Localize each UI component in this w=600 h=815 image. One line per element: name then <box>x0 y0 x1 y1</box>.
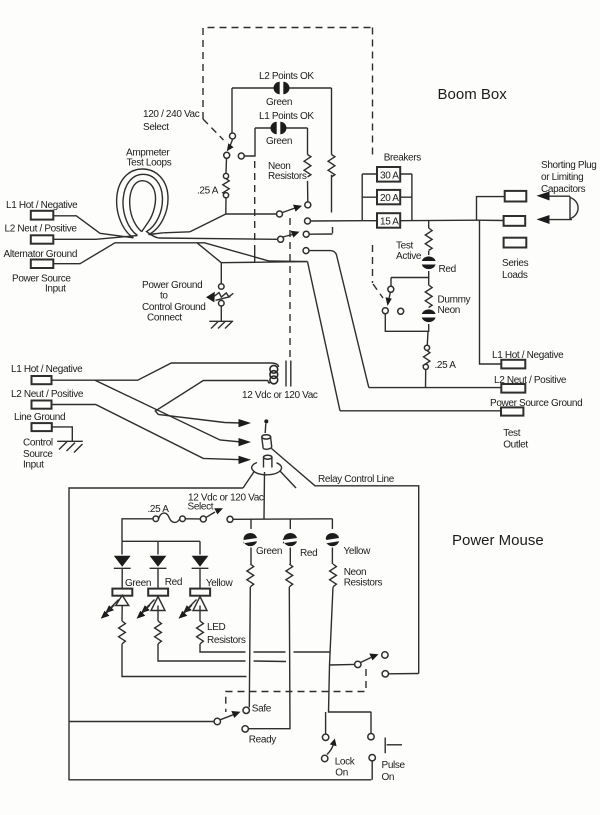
wire long vertical to test outlet L1 <box>480 220 502 364</box>
test outlet terminal L1 <box>501 360 525 369</box>
control terminal Line Ground <box>32 423 52 431</box>
svg-text:Yellow: Yellow <box>344 546 372 557</box>
svg-text:12 Vdc or 120 Vac: 12 Vdc or 120 Vac <box>242 390 318 401</box>
switch select: 120V contact <box>238 153 244 159</box>
LED yellow emission arrows <box>179 600 197 619</box>
connect switch opposing arrows <box>206 292 233 303</box>
svg-text:Green: Green <box>266 97 292 108</box>
svg-text:Alternator Ground: Alternator Ground <box>4 249 78 260</box>
neon resistor R1 lead top <box>307 128 309 155</box>
wire LED yellow to resistor <box>199 606 201 622</box>
switch contact4 (to relay line B) <box>303 248 309 254</box>
wire LED green resistor to green branch <box>122 644 247 677</box>
wire coil return with hook to arrow 1 <box>155 381 268 424</box>
wire input L2 to loop <box>53 236 137 240</box>
series load terminal 2 <box>504 216 526 226</box>
svg-text:L2 Neut / Positive: L2 Neut / Positive <box>5 224 78 235</box>
breaker 30A stubs <box>362 173 412 175</box>
LED yellow bar <box>190 589 210 596</box>
switch contact3 (to neon resistor R2) <box>303 231 309 237</box>
wire contact2 to breakers <box>311 220 363 222</box>
wire lamp to dummy top rail <box>428 271 430 285</box>
wire line ground to earth <box>52 427 73 441</box>
wire loop exit to arm2 <box>158 238 277 239</box>
isolation barrier bars <box>286 361 291 387</box>
wire L1 branch to arrow 2 <box>95 380 241 442</box>
fuse mouse right terminal <box>180 516 186 522</box>
switch arm1 arrow to contact1 <box>283 205 303 213</box>
relay current loop coil <box>267 363 279 384</box>
svg-text:Dummy: Dummy <box>438 295 471 306</box>
LED green bar <box>112 589 132 596</box>
breaker 20A box <box>377 190 400 204</box>
wire LED red to resistor <box>157 606 159 622</box>
wire yellow lamp drop <box>331 519 333 529</box>
ground symbol (power ground) <box>209 321 233 328</box>
switch relay-enable arm arrow <box>361 654 379 663</box>
LED red emission arrows <box>137 600 155 619</box>
breakers left rail <box>361 174 363 221</box>
wire 15A through-line <box>362 219 476 222</box>
svg-text:Source: Source <box>23 449 53 460</box>
dummy resistor lead to lamp <box>428 307 430 309</box>
svg-text:Select: Select <box>143 122 169 133</box>
input terminal L1 <box>31 211 54 220</box>
wire yellow branch down <box>329 587 372 712</box>
fuse .25A boom: bottom terminal <box>223 193 228 198</box>
wire lock/pulse top rail <box>326 712 371 734</box>
test outlet terminal ground <box>501 407 523 415</box>
power mouse box left/top/bottom <box>69 488 371 780</box>
switch safe-ready pivot <box>214 718 220 724</box>
LED yellow triangle <box>193 597 207 611</box>
input terminal Alternator Ground <box>31 260 54 269</box>
wire L2 loop left leg <box>231 88 233 133</box>
test outlet terminal L2 <box>501 384 525 393</box>
svg-text:Neon: Neon <box>344 567 367 578</box>
wire red lamp drop <box>289 519 291 529</box>
control terminal L1 <box>32 376 52 384</box>
ampmeter loop middle turn <box>123 174 162 238</box>
svg-text:15 A: 15 A <box>380 217 399 228</box>
dashed diagonal to dummy-neon switch <box>373 284 383 298</box>
wire dummy-neon top rail <box>391 277 429 279</box>
svg-text:L1 Hot / Negative: L1 Hot / Negative <box>6 200 78 211</box>
wire dummy switch top stub <box>390 278 392 287</box>
svg-text:Resistors: Resistors <box>344 578 383 589</box>
wire L1 loop left leg <box>244 128 255 156</box>
wire L2 loop right leg <box>331 88 333 155</box>
dashed enclosure top/left (120/240 select boundary) <box>203 28 373 120</box>
cable arrow 3 <box>239 456 252 464</box>
fuse .25A boom zigzag <box>223 179 229 195</box>
select mouse contact <box>227 516 233 522</box>
svg-text:Outlet: Outlet <box>503 440 528 451</box>
wire L2 lamp loop top <box>232 87 332 89</box>
wire select common to fuse <box>225 158 228 173</box>
wire L2 line to terminal <box>369 387 502 389</box>
svg-text:Power Ground: Power Ground <box>142 280 202 291</box>
mechanical link dashed (select gang) <box>254 161 256 250</box>
relay jack base <box>252 463 282 475</box>
svg-text:Control: Control <box>23 438 53 449</box>
connect switch bottom contact <box>219 300 225 306</box>
wire red lamp to resistor <box>289 548 291 565</box>
wire link bottom corner <box>254 250 256 263</box>
svg-text:.25 A: .25 A <box>197 186 219 197</box>
wire select contact to lamps bus <box>233 518 332 521</box>
LED resistor red <box>155 621 162 644</box>
wire diode red to LED <box>157 568 159 588</box>
switch lock-on top contact <box>322 734 328 740</box>
svg-text:to: to <box>160 291 168 302</box>
svg-text:Resistors: Resistors <box>268 171 307 182</box>
relay plug upper cylinder <box>262 435 272 450</box>
control terminal L2 <box>32 401 52 409</box>
svg-text:L2 Neut / Positive: L2 Neut / Positive <box>11 389 84 400</box>
svg-text:L2 Points OK: L2 Points OK <box>259 71 314 82</box>
wire fuse to select pivot <box>185 518 200 520</box>
switch select: top contact <box>230 133 236 139</box>
svg-text:Ready: Ready <box>249 735 277 746</box>
wire pulse bottom to bottom rail <box>371 761 373 780</box>
switch contact Ready <box>242 726 248 732</box>
wire LED drop yellow <box>199 541 201 554</box>
wire fuse to junction <box>225 198 227 214</box>
breaker 30A box <box>377 167 400 182</box>
svg-text:Active: Active <box>396 251 422 262</box>
svg-text:Line Ground: Line Ground <box>14 412 65 423</box>
svg-text:Neon: Neon <box>438 305 461 316</box>
wire LED bus <box>122 540 200 542</box>
diode red (filled) <box>150 556 167 569</box>
wire relay control line <box>272 449 419 674</box>
svg-text:or Limiting: or Limiting <box>541 172 583 183</box>
svg-text:Green: Green <box>266 136 292 147</box>
svg-text:Pulse: Pulse <box>382 760 406 771</box>
mechanical link dashed (relay switch to safe/ready) <box>226 669 366 712</box>
select mouse arm arrow <box>206 508 223 517</box>
ampmeter loop inner turn <box>130 181 156 232</box>
diode yellow (filled) <box>192 556 209 569</box>
series load terminal 3 <box>504 238 527 248</box>
svg-text:Loads: Loads <box>502 270 528 281</box>
LED red triangle <box>151 597 165 611</box>
svg-text:Red: Red <box>439 264 456 275</box>
wire LED yellow resistor to yellow branch <box>200 644 330 652</box>
wire control L1 to current loop <box>52 363 268 380</box>
wire green lamp drop <box>250 519 252 529</box>
neon resistor R2 lead bottom (with crossover gap) <box>332 175 333 233</box>
wire plug to select line <box>263 472 266 519</box>
neon lamp mouse Red (vertical) <box>283 533 297 546</box>
diode green (filled) <box>114 556 131 569</box>
switch dummy: top contact <box>388 286 394 292</box>
switch relay-enable pivot <box>355 661 361 667</box>
neon resistor R1 zigzag <box>304 155 311 177</box>
svg-text:Relay Control Line: Relay Control Line <box>318 474 395 485</box>
switch dummy: left contact <box>382 308 388 314</box>
svg-text:Input: Input <box>45 284 66 295</box>
svg-text:Connect: Connect <box>147 313 182 324</box>
switch dummy arm arrow <box>386 293 392 307</box>
relay jack lower cylinder <box>264 455 272 467</box>
wire yellow lamp to resistor <box>331 548 333 565</box>
fuse .25A outlet: bottom terminal <box>423 364 428 369</box>
switch arm2 pivot <box>278 236 284 242</box>
wire dummy bottom rail <box>385 314 428 332</box>
shorting plug D handle <box>570 196 578 219</box>
svg-text:Resistors: Resistors <box>207 635 246 646</box>
wire LED green to resistor <box>121 606 123 622</box>
svg-text:20 A: 20 A <box>380 193 399 204</box>
connect switch top contact <box>219 284 225 290</box>
pulse-on bottom contact <box>369 755 375 761</box>
wire contact4 relay line B start <box>309 251 369 388</box>
switch contact2 (to breakers) <box>305 218 311 224</box>
svg-text:Green: Green <box>256 546 282 557</box>
LED red bar <box>148 589 168 596</box>
input terminal L2 <box>31 235 54 243</box>
ampmeter loop outer turn <box>117 169 168 238</box>
wire main to series load 2 <box>477 219 504 221</box>
wire green branch down to Safe <box>249 587 250 707</box>
dummy neon resistor zigzag <box>425 285 432 307</box>
fuse mouse zigzag <box>159 513 180 522</box>
neon resistor mouse red <box>286 564 293 587</box>
test active resistor lead 2 <box>428 251 430 255</box>
breaker 20A stubs <box>362 196 412 198</box>
svg-text:Power Mouse: Power Mouse <box>452 532 544 549</box>
breakers right rail <box>411 174 413 221</box>
shorting plug arrow 1 <box>537 192 571 201</box>
neon lamp mouse Green (vertical) <box>244 533 257 546</box>
pulse-on top contact <box>368 734 374 740</box>
wire junction to arm1 <box>226 213 276 215</box>
svg-text:Red: Red <box>165 577 182 588</box>
wire control L2 to arrow 3 <box>52 405 242 460</box>
fuse .25A outlet zigzag <box>424 350 430 367</box>
LED resistor green <box>119 621 126 644</box>
test active resistor zigzag <box>425 228 432 250</box>
wire yellow branch to right switch pivot <box>330 663 355 666</box>
wire L1 lamp loop top <box>255 127 308 129</box>
wire diode yellow to LED <box>199 568 201 588</box>
svg-text:Breakers: Breakers <box>384 152 422 163</box>
power mouse tent to plug <box>243 471 296 488</box>
svg-text:L1 Points OK: L1 Points OK <box>259 111 314 122</box>
LED green emission arrows <box>101 600 119 619</box>
svg-text:Yellow: Yellow <box>206 578 234 589</box>
switch select arm arrow <box>227 140 234 152</box>
wire red branch down to Ready <box>248 587 290 729</box>
wire LED drop red <box>157 541 159 554</box>
wire diode green to LED <box>121 568 123 588</box>
switch arm2 arrow to contact3 <box>283 231 300 238</box>
switch dummy: right contact <box>398 308 404 314</box>
shorting plug arrow 2 <box>537 215 573 224</box>
svg-text:Test: Test <box>396 241 414 252</box>
neon resistor R2 zigzag <box>328 155 335 177</box>
wire LED red resistor to red branch <box>158 644 286 662</box>
svg-text:L1 Hot / Negative: L1 Hot / Negative <box>11 364 83 375</box>
mechanical link dashed 2 <box>289 218 291 357</box>
svg-text:LED: LED <box>207 622 226 633</box>
svg-text:Green: Green <box>125 578 151 589</box>
wire junction diagonal to bundle top <box>190 214 226 232</box>
neon lamp L2 Points (Green) <box>274 82 290 94</box>
LED green triangle <box>116 595 129 605</box>
ground symbol (control source earth) <box>57 441 83 452</box>
svg-text:Boom Box: Boom Box <box>438 86 508 103</box>
LED resistor yellow <box>197 621 204 644</box>
svg-text:On: On <box>382 772 395 783</box>
switch relay-enable contact up <box>382 652 388 658</box>
breaker 15A box <box>377 213 400 228</box>
cable arrow 1 <box>239 419 252 427</box>
svg-text:Test Loops: Test Loops <box>127 158 172 169</box>
wire bundle bottom diag to power-ground junction <box>197 243 221 263</box>
wire safe-ready feed from box edge <box>69 721 214 723</box>
svg-text:30 A: 30 A <box>380 171 399 182</box>
wire diagonal A to PSG line <box>308 262 341 411</box>
switch relay-enable contact down <box>382 671 388 677</box>
svg-text:Input: Input <box>23 460 44 471</box>
cable arrow 2 <box>239 438 252 446</box>
fuse mouse left terminal <box>153 516 159 522</box>
svg-text:Test: Test <box>503 428 521 439</box>
switch lock-on arm arrow (curved) <box>327 739 337 755</box>
fuse .25A boom: top terminal <box>223 173 228 178</box>
neon lamp L1 Points (Green) <box>271 122 287 134</box>
series load terminal 1 <box>505 191 527 202</box>
svg-text:On: On <box>335 768 348 779</box>
svg-text:Select: Select <box>188 502 214 513</box>
svg-text:120 / 240 Vac: 120 / 240 Vac <box>143 109 200 120</box>
switch select: common pole <box>224 152 230 158</box>
switch contact1 (to neon resistor R1) <box>305 202 311 208</box>
wire power-ground horizontal <box>221 262 307 263</box>
svg-text:Lock: Lock <box>335 757 356 768</box>
switch arm1 pivot <box>277 211 283 217</box>
svg-text:Shorting Plug: Shorting Plug <box>541 160 597 171</box>
svg-text:Red: Red <box>300 548 317 559</box>
neon resistor mouse yellow <box>330 564 337 587</box>
wire input ground to bundle bottom <box>53 243 307 264</box>
wire series-load junction up branch <box>477 197 505 221</box>
wire fuse feed from LED bus corner <box>122 519 153 542</box>
neon resistor mouse green <box>247 564 254 587</box>
wire loop exit to fuse junction <box>163 232 190 233</box>
switch lock-on bottom contact <box>322 755 328 761</box>
switch safe-ready arm arrow <box>220 711 241 720</box>
wire input L1 to loop <box>54 216 134 238</box>
wire PSG line to terminal <box>340 410 501 412</box>
neon lamp Dummy (vertical) <box>422 309 436 322</box>
wire LED drop green <box>121 541 123 554</box>
wire junction to connect switch <box>220 263 222 284</box>
wire outlet fuse to L2 line <box>425 370 427 388</box>
neon resistor R1 lead bottom <box>307 181 309 202</box>
svg-text:Control Ground: Control Ground <box>142 302 205 313</box>
wire contact down to relay line end <box>389 673 419 675</box>
svg-text:Safe: Safe <box>252 704 272 715</box>
dashed diagonal to select switch <box>203 119 224 140</box>
select mouse pivot <box>200 516 206 522</box>
wire connect switch to ground <box>220 306 222 321</box>
svg-text:.25 A: .25 A <box>435 360 457 371</box>
dashed enclosure right edge <box>372 28 374 158</box>
switch contact Safe <box>243 707 249 713</box>
wire contact3 to R2 <box>309 233 332 235</box>
wire dummy rail down to fuse <box>426 331 429 345</box>
neon lamp mouse Yellow (vertical) <box>326 533 339 546</box>
fuse .25A outlet: top terminal <box>424 345 429 350</box>
neon lamp Test Active (Red, vertical) <box>422 256 436 269</box>
test active resistor lead <box>428 220 430 228</box>
wire green lamp to resistor <box>250 548 252 565</box>
svg-text:Series: Series <box>502 258 529 269</box>
relay plug pin dot <box>264 419 268 433</box>
pulse-on button symbol <box>385 738 402 754</box>
